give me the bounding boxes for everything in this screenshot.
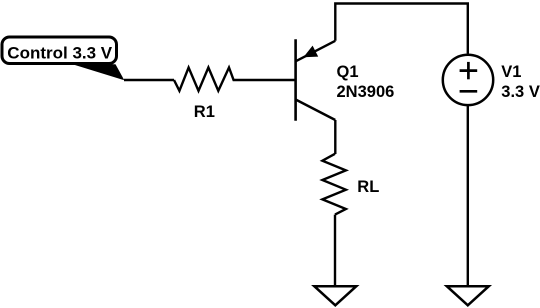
svg-text:Control 3.3 V: Control 3.3 V (7, 44, 113, 63)
svg-text:R1: R1 (194, 103, 215, 121)
svg-text:Q1: Q1 (337, 63, 359, 81)
svg-text:2N3906: 2N3906 (337, 83, 395, 101)
svg-text:RL: RL (357, 178, 379, 196)
svg-text:V1: V1 (501, 63, 521, 81)
svg-text:3.3 V: 3.3 V (501, 83, 540, 101)
